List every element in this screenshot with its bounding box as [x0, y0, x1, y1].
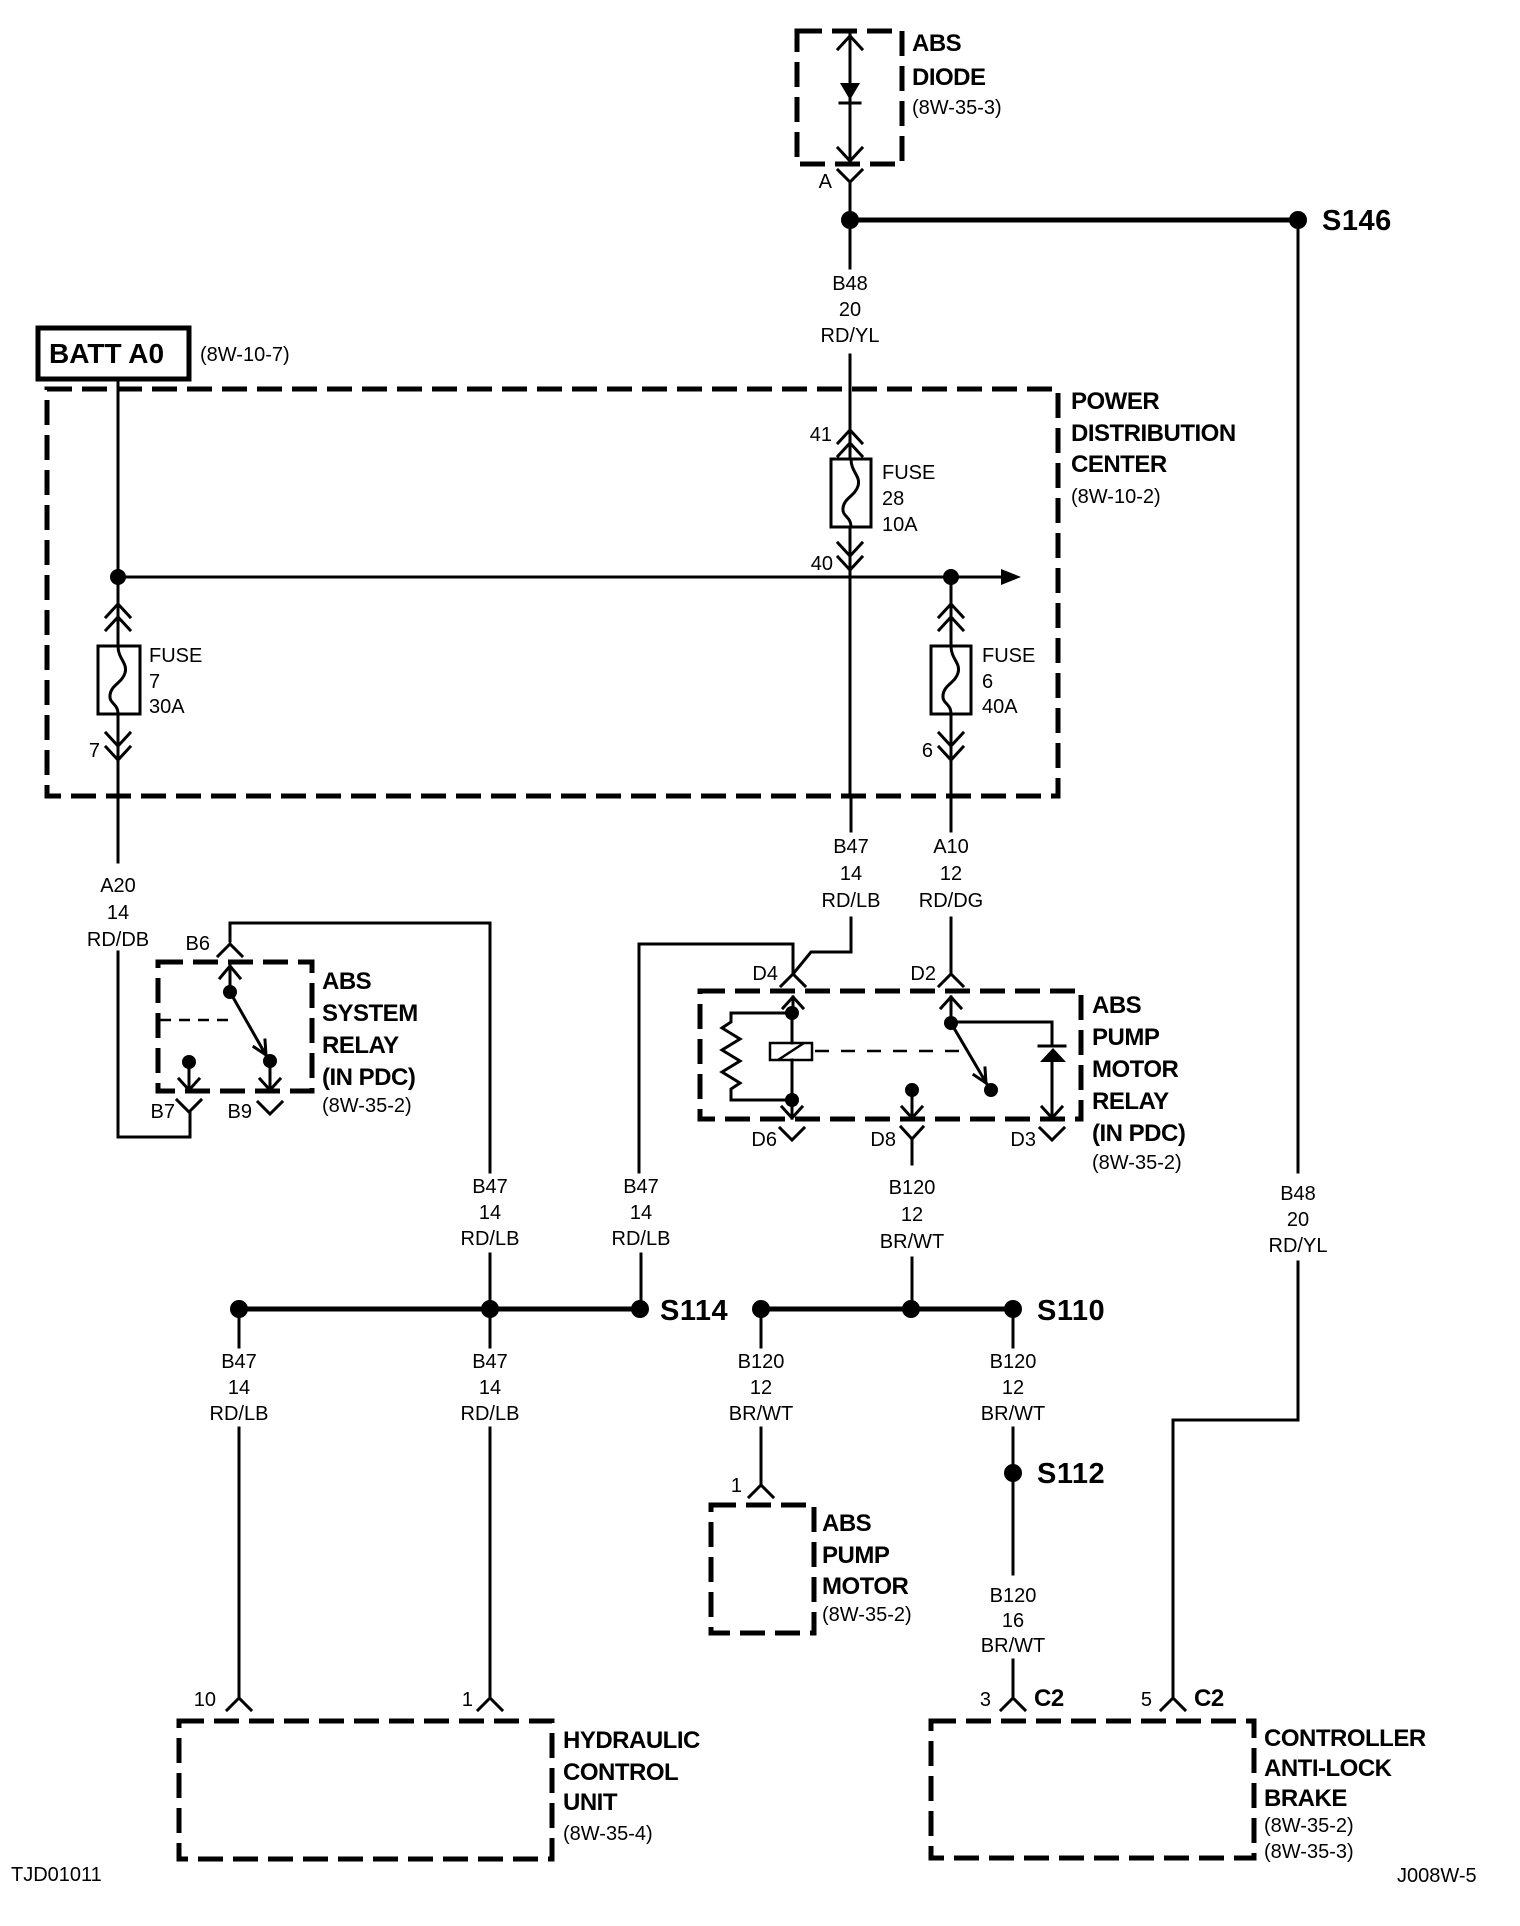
fuse 6 40A: [931, 645, 1035, 718]
svg-text:B48: B48: [1280, 1183, 1316, 1205]
svg-text:PUMP: PUMP: [822, 1542, 890, 1569]
svg-text:ABS: ABS: [822, 1510, 872, 1537]
ABS PUMP MOTOR RELAY label: [1092, 992, 1185, 1174]
wire B120 12 BR/WT from D8 to S110: [880, 1177, 944, 1309]
relay switch blade: [230, 992, 277, 1068]
fuse 28 10A: [831, 459, 935, 536]
svg-text:(IN PDC): (IN PDC): [322, 1064, 415, 1091]
svg-text:MOTOR: MOTOR: [1092, 1056, 1179, 1083]
svg-text:12: 12: [901, 1204, 923, 1226]
HCU pin 10 connector: [194, 1689, 251, 1711]
svg-text:DIODE: DIODE: [912, 64, 986, 91]
pin D2 connector: [910, 963, 963, 1023]
svg-text:RD/YL: RD/YL: [821, 325, 880, 347]
wire B47 14 RD/LB from fuse 28 to relay pin D4: [793, 796, 880, 974]
svg-text:(8W-35-2): (8W-35-2): [822, 1604, 912, 1626]
svg-text:UNIT: UNIT: [563, 1789, 618, 1816]
wire B120 16 BR/WT from S112 to controller pin 3: [981, 1482, 1045, 1698]
BATT A0 feed box: [38, 328, 290, 379]
svg-text:PUMP: PUMP: [1092, 1024, 1160, 1051]
svg-text:14: 14: [840, 863, 862, 885]
fuse 7 branch connector: [106, 585, 130, 646]
relay actuator dashed link: [815, 1050, 960, 1053]
pump motor pin 1 connector: [731, 1475, 773, 1497]
svg-text:B120: B120: [990, 1585, 1037, 1607]
wire stubs into S114 labels: [461, 1176, 520, 1309]
svg-text:40: 40: [811, 553, 833, 575]
svg-text:ABS: ABS: [912, 30, 962, 57]
controller anti-lock brake box: [931, 1721, 1426, 1863]
svg-text:14: 14: [479, 1377, 501, 1399]
wire B47 branch from pin D4 to S114: [639, 944, 793, 1172]
svg-text:1: 1: [731, 1475, 742, 1497]
svg-text:12: 12: [750, 1377, 772, 1399]
svg-text:CONTROLLER: CONTROLLER: [1264, 1725, 1426, 1752]
svg-text:40A: 40A: [982, 696, 1018, 718]
svg-text:RD/YL: RD/YL: [1269, 1235, 1328, 1257]
wire fuse 28 output: [849, 527, 852, 796]
svg-text:B48: B48: [832, 273, 868, 295]
svg-text:5: 5: [1141, 1689, 1152, 1711]
svg-text:D2: D2: [910, 963, 936, 985]
svg-text:BRAKE: BRAKE: [1264, 1785, 1347, 1812]
junction at fuse 6 branch: [943, 569, 959, 585]
svg-text:(IN PDC): (IN PDC): [1092, 1120, 1185, 1147]
relay coil: [770, 1013, 812, 1107]
svg-text:(8W-35-2): (8W-35-2): [322, 1095, 412, 1117]
fuse 6 branch connector: [939, 585, 963, 646]
svg-text:6: 6: [982, 671, 993, 693]
svg-text:41: 41: [810, 424, 832, 446]
ABS diode box: [797, 31, 902, 164]
svg-text:D8: D8: [870, 1129, 896, 1151]
pin 6 connector: [922, 714, 963, 796]
svg-text:7: 7: [89, 740, 100, 762]
node A junction: [841, 211, 859, 229]
svg-text:BR/WT: BR/WT: [729, 1403, 793, 1425]
pin B6 connector: [186, 933, 242, 956]
pin D3: [1010, 1107, 1064, 1151]
svg-text:A10: A10: [933, 836, 969, 858]
svg-text:(8W-35-4): (8W-35-4): [563, 1823, 653, 1845]
wire A20 14 RD/DB: [87, 796, 190, 1137]
ABS SYSTEM RELAY label: [322, 968, 418, 1117]
svg-text:BR/WT: BR/WT: [981, 1635, 1045, 1657]
svg-text:BR/WT: BR/WT: [880, 1231, 944, 1253]
hydraulic control unit box: [179, 1721, 700, 1859]
svg-text:10A: 10A: [882, 514, 918, 536]
power distribution center box: [47, 389, 1058, 796]
svg-text:B9: B9: [228, 1101, 252, 1123]
svg-text:RD/LB: RD/LB: [822, 890, 881, 912]
pin A connector: [819, 170, 862, 211]
junction at fuse 7 branch: [110, 569, 126, 585]
ABS pump motor box: [711, 1505, 912, 1633]
wire A10 12 RD/DG from fuse 6 to relay pin D2: [919, 796, 983, 972]
svg-text:(8W-35-3): (8W-35-3): [1264, 1841, 1354, 1863]
ABS system relay box: [158, 962, 312, 1091]
relay coil resistor: [722, 1006, 799, 1100]
svg-text:B120: B120: [990, 1351, 1037, 1373]
splice S112: [1004, 1458, 1105, 1490]
pin 41 connector: [810, 424, 862, 456]
svg-text:J008W-5: J008W-5: [1397, 1865, 1477, 1887]
splice S110: [752, 1295, 1105, 1327]
switch feed to clamp diode: [951, 1022, 1052, 1046]
svg-text:20: 20: [1287, 1209, 1309, 1231]
svg-text:POWER: POWER: [1071, 388, 1159, 415]
svg-text:14: 14: [228, 1377, 250, 1399]
svg-text:14: 14: [107, 902, 129, 924]
svg-text:CENTER: CENTER: [1071, 451, 1167, 478]
svg-text:6: 6: [922, 740, 933, 762]
wire B47 14 RD/LB from S114 to HCU pin 10: [210, 1318, 269, 1698]
svg-text:28: 28: [882, 488, 904, 510]
svg-text:(8W-35-2): (8W-35-2): [1264, 1815, 1354, 1837]
svg-text:B120: B120: [738, 1351, 785, 1373]
svg-text:SYSTEM: SYSTEM: [322, 1000, 418, 1027]
svg-text:D6: D6: [751, 1129, 777, 1151]
svg-text:B47: B47: [833, 836, 869, 858]
svg-text:20: 20: [839, 299, 861, 321]
svg-text:1: 1: [462, 1689, 473, 1711]
svg-text:S114: S114: [660, 1295, 728, 1327]
svg-text:C2: C2: [1034, 1685, 1064, 1712]
svg-text:RD/DB: RD/DB: [87, 929, 149, 951]
ABS DIODE label: [912, 30, 1002, 119]
svg-text:(8W-10-2): (8W-10-2): [1071, 486, 1161, 508]
HCU pin 1 connector: [462, 1689, 502, 1711]
svg-text:3: 3: [980, 1689, 991, 1711]
pin D4 connector: [752, 963, 805, 1013]
wire A to S146: [850, 218, 1298, 223]
svg-text:30A: 30A: [149, 696, 185, 718]
pin 7 connector: [89, 714, 130, 796]
svg-text:B47: B47: [472, 1176, 508, 1198]
pump relay switch blade: [944, 1016, 998, 1097]
svg-text:D4: D4: [752, 963, 778, 985]
wire B120 12 BR/WT from S110 to pump motor pin 1: [729, 1318, 793, 1485]
pin D8: [870, 1083, 923, 1164]
diode D (ABS diode): [838, 31, 862, 164]
svg-text:10: 10: [194, 1689, 216, 1711]
svg-text:14: 14: [630, 1202, 652, 1224]
svg-text:DISTRIBUTION: DISTRIBUTION: [1071, 420, 1236, 447]
ABS pump motor relay box: [700, 991, 1081, 1119]
svg-text:TJD01011: TJD01011: [11, 1864, 102, 1886]
svg-text:S112: S112: [1037, 1458, 1105, 1490]
splice S114: [230, 1295, 728, 1327]
wire from relay pin B6 to S114: [230, 923, 490, 1172]
wire B47 14 RD/LB from S114 to HCU pin 1: [461, 1318, 520, 1698]
svg-text:B47: B47: [623, 1176, 659, 1198]
svg-text:16: 16: [1002, 1610, 1024, 1632]
svg-text:FUSE: FUSE: [149, 645, 202, 667]
svg-text:B7: B7: [151, 1101, 175, 1123]
wire B48 from node A down to PDC: [821, 229, 880, 459]
svg-text:S146: S146: [1322, 205, 1392, 237]
svg-text:B6: B6: [186, 933, 210, 955]
svg-text:ABS: ABS: [1092, 992, 1142, 1019]
controller pin 5 connector C2: [1141, 1685, 1224, 1712]
pin D6: [751, 1100, 804, 1151]
wire B48 20 RD/YL from S146 to controller pin 5: [1173, 229, 1327, 1698]
splice S146: [1289, 205, 1392, 237]
wire B120 12 BR/WT from S110 to S112: [981, 1318, 1045, 1473]
svg-text:B47: B47: [472, 1351, 508, 1373]
pin B7: [151, 1055, 201, 1123]
relay switch common arrow (inside): [220, 966, 240, 999]
svg-text:14: 14: [479, 1202, 501, 1224]
svg-text:12: 12: [1002, 1377, 1024, 1399]
svg-text:FUSE: FUSE: [982, 645, 1035, 667]
svg-text:RELAY: RELAY: [322, 1032, 399, 1059]
svg-text:B120: B120: [889, 1177, 936, 1199]
svg-text:HYDRAULIC: HYDRAULIC: [563, 1727, 700, 1754]
PDC bus wire with arrow: [118, 569, 1021, 585]
svg-text:D3: D3: [1010, 1129, 1036, 1151]
svg-text:RD/LB: RD/LB: [461, 1228, 520, 1250]
svg-text:12: 12: [940, 863, 962, 885]
svg-text:(8W-35-2): (8W-35-2): [1092, 1152, 1182, 1174]
clamp diode: [1039, 1046, 1066, 1118]
svg-text:RD/LB: RD/LB: [461, 1403, 520, 1425]
svg-text:MOTOR: MOTOR: [822, 1573, 909, 1600]
fuse 7 30A: [98, 645, 202, 718]
svg-text:CONTROL: CONTROL: [563, 1759, 678, 1786]
svg-text:RELAY: RELAY: [1092, 1088, 1169, 1115]
pin 40 connector: [811, 543, 862, 575]
svg-text:(8W-35-3): (8W-35-3): [912, 97, 1002, 119]
svg-text:ABS: ABS: [322, 968, 372, 995]
svg-text:BR/WT: BR/WT: [981, 1403, 1045, 1425]
svg-text:A: A: [819, 171, 833, 193]
svg-text:B47: B47: [221, 1351, 257, 1373]
POWER DISTRIBUTION CENTER label: [1071, 388, 1236, 508]
relay actuator dashed link: [160, 1019, 232, 1022]
svg-text:BATT A0: BATT A0: [49, 338, 164, 369]
svg-text:S110: S110: [1037, 1295, 1105, 1327]
svg-text:7: 7: [149, 671, 160, 693]
pin B9: [228, 1061, 282, 1123]
svg-text:C2: C2: [1194, 1685, 1224, 1712]
wire BATT A0 down into PDC: [117, 379, 120, 577]
svg-text:FUSE: FUSE: [882, 462, 935, 484]
svg-text:RD/LB: RD/LB: [612, 1228, 671, 1250]
svg-text:(8W-10-7): (8W-10-7): [200, 344, 290, 366]
svg-text:ANTI-LOCK: ANTI-LOCK: [1264, 1755, 1393, 1782]
svg-text:RD/DG: RD/DG: [919, 890, 983, 912]
svg-text:A20: A20: [100, 875, 136, 897]
svg-text:RD/LB: RD/LB: [210, 1403, 269, 1425]
controller pin 3 connector C2: [980, 1685, 1064, 1712]
